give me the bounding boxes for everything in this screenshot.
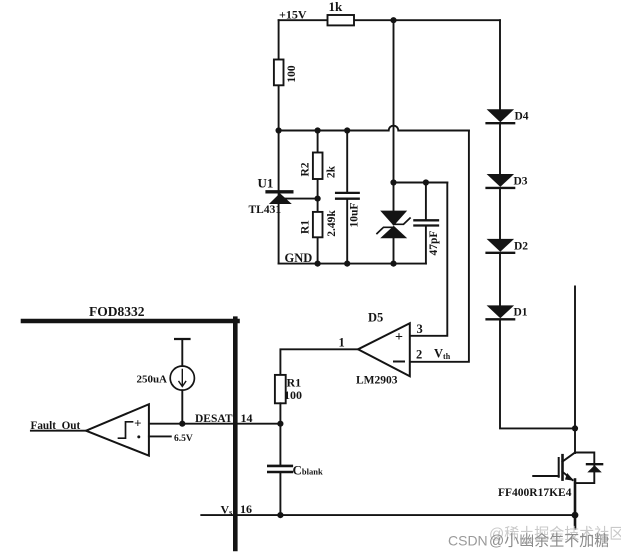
wire FOD8332 box top thick (23, 319, 238, 324)
transistor IGBT FF400R17KE4 (498, 453, 575, 500)
op-amp U1 TL431 (249, 176, 292, 217)
resistor R2 2k (313, 153, 323, 180)
svg-text:TL431: TL431 (249, 204, 282, 216)
wire TVS column from top rail (393, 20, 395, 210)
capacitor Cblank (268, 424, 323, 515)
op-amp fault comparator (86, 404, 149, 456)
wire DESAT net (149, 423, 281, 425)
svg-text:Cblank: Cblank (293, 463, 323, 478)
resistor 1k (328, 15, 355, 25)
svg-text:14: 14 (241, 411, 253, 425)
op-amp D5 LM2903 (339, 311, 451, 387)
diode D2 (487, 239, 529, 253)
node top junction dot (390, 17, 396, 23)
node DESAT dot right (277, 421, 283, 427)
node Cblank bottom dot (277, 512, 283, 518)
svg-text:16: 16 (240, 502, 252, 516)
svg-text:R2: R2 (300, 162, 312, 176)
current source 250uA (136, 339, 194, 424)
node rail2 R2 dot (315, 127, 321, 133)
svg-text:100: 100 (286, 65, 298, 83)
node GND dots (315, 261, 321, 267)
svg-text:2.49k: 2.49k (326, 210, 338, 237)
svg-text:+: + (134, 416, 141, 431)
diode D3 (487, 174, 528, 188)
wire FOD8332 box right thick (233, 319, 238, 549)
svg-text:6.5V: 6.5V (174, 434, 193, 444)
svg-text:1: 1 (339, 336, 345, 350)
svg-text:D5: D5 (368, 311, 383, 325)
svg-text:@小幽余生不加糖: @小幽余生不加糖 (489, 532, 609, 550)
svg-text:FF400R17KE4: FF400R17KE4 (498, 487, 572, 499)
svg-text:FOD8332: FOD8332 (89, 304, 145, 319)
svg-text:D2: D2 (514, 241, 528, 253)
node 47pF top dot (423, 179, 429, 185)
node chain to collector dot (572, 425, 578, 431)
svg-text:CSDN: CSDN (448, 533, 488, 549)
svg-text:250uA: 250uA (136, 374, 167, 386)
wire left column (278, 20, 280, 263)
svg-text:U1: U1 (258, 176, 274, 191)
wire GND rail (279, 263, 426, 265)
node TVS top dot (390, 179, 396, 185)
svg-text:Fault_Out: Fault_Out (31, 420, 81, 432)
node rail2 left dot (276, 127, 282, 133)
capacitor 10uF (336, 131, 360, 264)
wire diode chain column (500, 20, 575, 428)
capacitor 47pF (414, 183, 440, 264)
node emitter Vs dot (572, 512, 579, 519)
node divider midpoint dot (315, 196, 321, 202)
svg-text:1k: 1k (329, 0, 344, 14)
svg-text:3: 3 (417, 322, 423, 336)
diode D1 (487, 305, 528, 319)
wire freewheel diode branch (575, 453, 594, 484)
wire divider column (317, 131, 319, 264)
svg-text:+15V: +15V (279, 8, 307, 22)
svg-text:Vth: Vth (434, 347, 451, 362)
svg-text:D1: D1 (514, 307, 528, 319)
node rail2 10uF dot (344, 127, 350, 133)
svg-text:100: 100 (284, 388, 302, 402)
svg-text:10uF: 10uF (349, 203, 361, 228)
wire pin2 column (410, 131, 469, 362)
diode TVS bidirectional (377, 211, 410, 264)
svg-text:R1: R1 (300, 220, 312, 234)
diode freewheel (587, 464, 602, 472)
wire second rail with hop (279, 126, 469, 131)
wire emitter column (574, 480, 577, 529)
svg-text:Vs: Vs (221, 503, 233, 518)
svg-text:47pF: 47pF (428, 231, 440, 256)
svg-text:DESAT: DESAT (195, 413, 233, 425)
svg-text:D4: D4 (515, 111, 529, 123)
svg-text:+: + (395, 330, 403, 345)
wire top rail +15V to diode chain (279, 19, 500, 21)
wire minus input 6.5V stub (149, 435, 171, 437)
wire Fault_Out output (31, 430, 86, 432)
diode D4 (487, 109, 529, 123)
wire right column to collector (574, 287, 576, 454)
resistor R1 100 (275, 375, 286, 403)
wire pin1 to R1 column (280, 349, 358, 375)
svg-text:LM2903: LM2903 (356, 375, 398, 387)
svg-text:D3: D3 (514, 176, 528, 188)
wire Vs rail pin16 (201, 514, 575, 516)
wire TL431 reference to divider (284, 198, 318, 200)
resistor 100 (top-left) (274, 60, 284, 86)
wire node segment to pin3 column (394, 182, 448, 184)
node DESAT dot source (179, 421, 185, 427)
resistor R1 2.49k (313, 212, 323, 237)
svg-text:2: 2 (416, 348, 422, 362)
wire pin3 column (410, 183, 447, 336)
svg-text:2k: 2k (326, 165, 338, 178)
svg-text:GND: GND (285, 251, 313, 265)
